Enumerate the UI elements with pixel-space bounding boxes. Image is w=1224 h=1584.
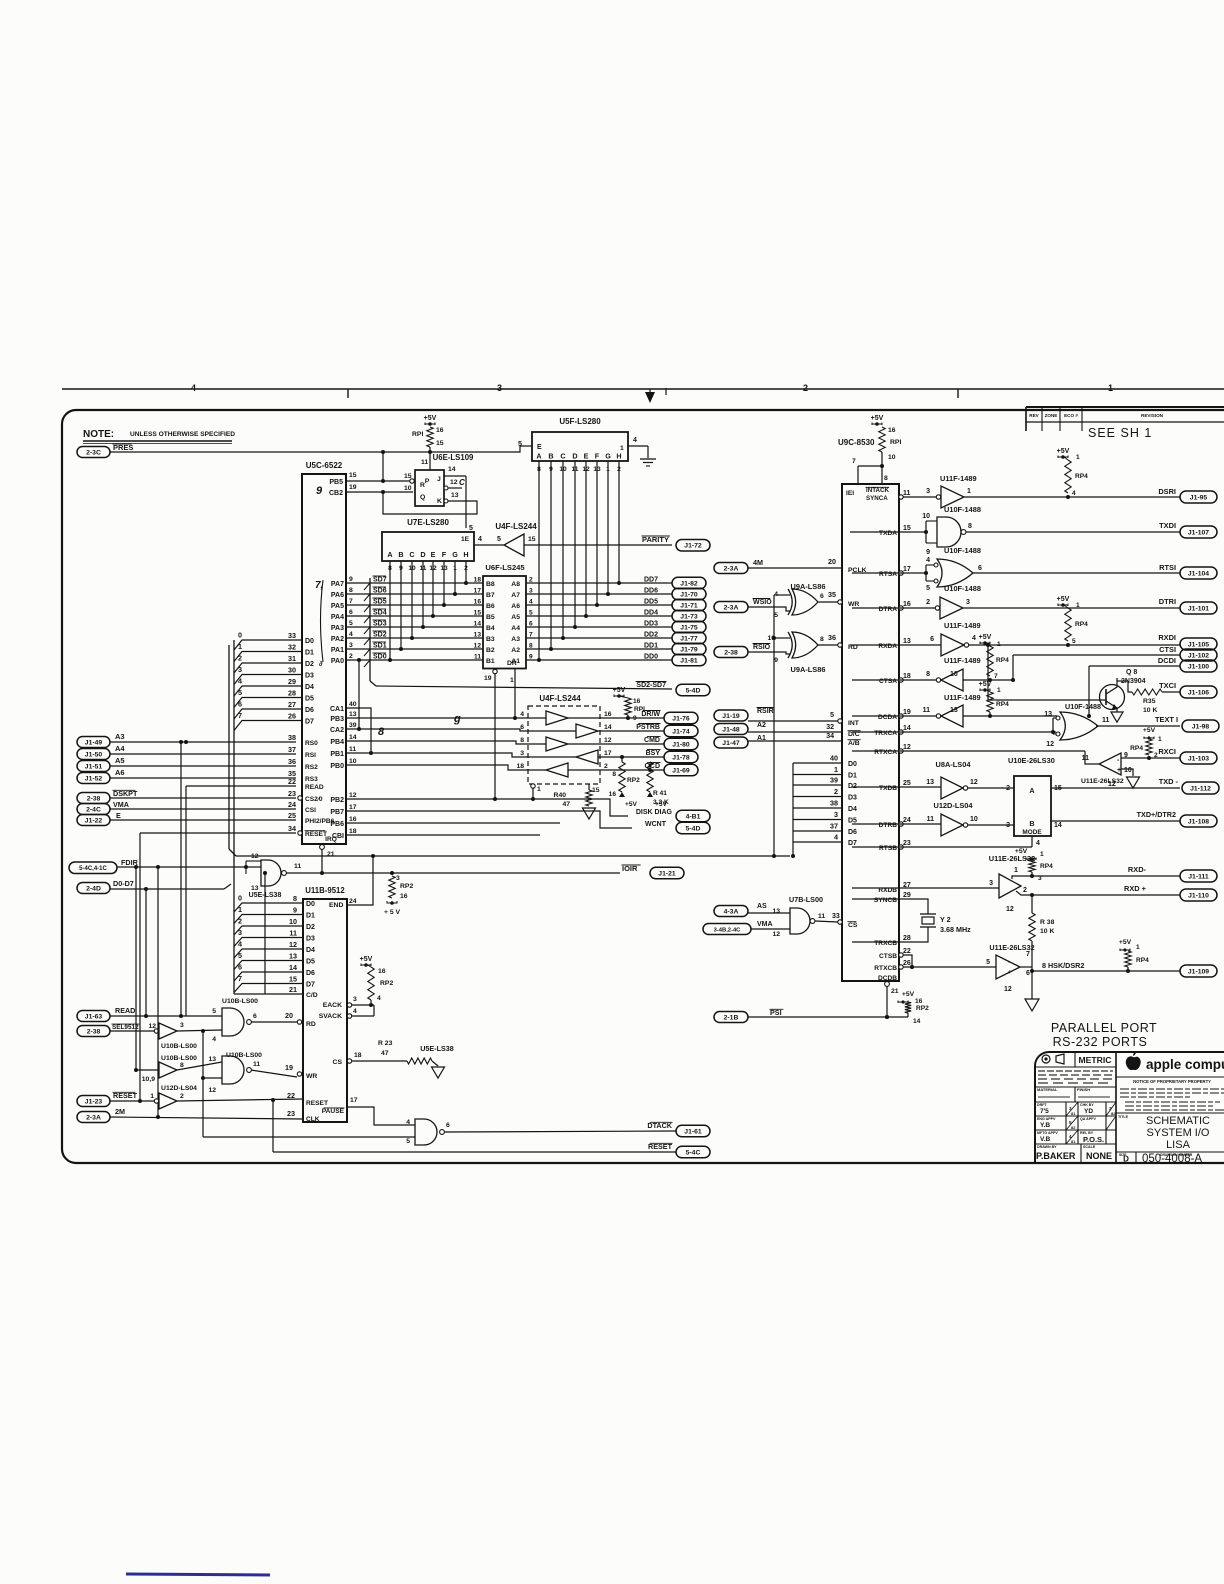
svg-text:0: 0 [238,894,242,903]
wire E [110,819,296,821]
svg-text:1: 1 [238,642,242,651]
svg-text:15: 15 [903,525,911,532]
svg-text:CHK BY: CHK BY [1080,1103,1094,1107]
ic U4F-LS244 buffer block [528,706,600,784]
svg-text:16: 16 [915,998,923,1005]
wire RTSI [973,572,1180,574]
connector J1-78 [664,751,698,763]
connector 2-38 DSKPT [77,793,110,804]
svg-text:ECO #: ECO # [1064,413,1078,418]
svg-text:D0: D0 [306,901,315,908]
svg-text:J1-70: J1-70 [680,591,698,598]
wire A3 [110,741,296,743]
wire DD3 [526,626,672,628]
svg-text:Y.B: Y.B [1040,1122,1050,1129]
wire D0 stub (8530) [793,762,842,764]
svg-text:8: 8 [349,587,353,594]
svg-text:U11E-26LS32: U11E-26LS32 [1081,778,1124,785]
gate U5E-LS38 (FDIR) [246,866,261,868]
connector 5-4D (SD2-SD7) [676,684,710,696]
svg-text:3: 3 [989,880,993,887]
svg-text:8: 8 [293,894,297,903]
svg-text:16: 16 [436,427,444,434]
svg-text:D3: D3 [306,935,315,942]
svg-text:2-38: 2-38 [87,795,101,802]
wire RXCI [1121,757,1180,759]
svg-text:PAUSE: PAUSE [322,1108,345,1115]
svg-text:J1-52: J1-52 [85,775,103,782]
svg-text:D7: D7 [848,840,857,847]
svg-text:CS: CS [333,1059,343,1066]
wire READ pin22 [186,785,296,787]
connector J1-49 [77,737,110,748]
svg-text:RP4: RP4 [1130,745,1143,752]
svg-text:R 23: R 23 [378,1040,393,1047]
title block grid [1115,1052,1117,1163]
ground (RXCI) [1127,777,1140,788]
svg-text:D: D [572,452,577,461]
svg-text:15: 15 [436,440,444,447]
svg-text:A6: A6 [511,603,520,610]
svg-text:6: 6 [238,963,242,972]
svg-text:15: 15 [289,975,297,984]
data bus vertical (8530) [792,763,794,856]
svg-text:0: 0 [238,631,242,640]
wire inv2 in [136,1069,159,1071]
wire CTSA in [963,679,1013,681]
svg-text:2-3A: 2-3A [86,1114,101,1121]
gate U9A-LS86 (RD) [792,632,818,658]
svg-text:13: 13 [208,1056,216,1063]
svg-text:TEXT I: TEXT I [1155,715,1178,724]
svg-text:J1-19: J1-19 [722,713,740,720]
svg-text:8: 8 [820,636,824,643]
svg-text:39: 39 [830,776,838,785]
connector J1-105 [1180,638,1217,650]
data bus vertical [228,645,230,849]
svg-text:17: 17 [349,804,357,811]
svg-text:TITLE: TITLE [1118,1115,1129,1119]
svg-text:RXDI: RXDI [1158,633,1176,642]
svg-text:5: 5 [1072,638,1076,645]
resistor RP2 pullup (BSY) [619,762,625,792]
svg-text:6: 6 [349,609,353,616]
wire TEXT I [1096,725,1180,727]
wire FDIR [117,866,246,868]
svg-text:5: 5 [349,620,353,627]
svg-text:6: 6 [520,724,524,731]
ground (Q8) [1111,712,1123,722]
svg-text:DD5: DD5 [644,599,658,606]
svg-text:U7B-LS00: U7B-LS00 [789,895,823,904]
svg-text:29: 29 [288,677,296,686]
svg-text:U5C-6522: U5C-6522 [306,461,343,470]
connector 2-38 SEL9512 [77,1026,110,1037]
svg-text:TXCI: TXCI [1159,681,1176,690]
svg-text:050-4008-A: 050-4008-A [1142,1153,1202,1165]
connector J1-19 [714,710,748,721]
svg-text:4: 4 [1036,840,1040,847]
svg-text:5: 5 [212,1008,216,1015]
svg-text:4-3A: 4-3A [724,908,739,915]
svg-text:RSIO: RSIO [753,644,771,651]
connector J1-106 [1180,686,1217,698]
svg-text:U12D-LS04: U12D-LS04 [161,1085,197,1092]
svg-text:RPI: RPI [412,431,423,438]
pin WR 35 [838,600,842,604]
svg-text:B1: B1 [486,658,495,665]
svg-text:RSI: RSI [305,752,316,759]
connector J1-79 [672,643,706,655]
svg-text:4: 4 [353,1008,357,1015]
svg-text:6: 6 [978,565,982,572]
buffer 2 (PSTRB) [528,730,576,732]
svg-text:8: 8 [884,475,888,482]
wire TXD- [1051,787,1180,789]
svg-text:D4: D4 [306,947,315,954]
vertical XOR feed [773,595,775,856]
wire RP1 to pin11 [429,447,431,470]
svg-text:RXCI: RXCI [1158,747,1176,756]
svg-text:4: 4 [238,940,242,949]
wire D7 stub (8530) [793,841,842,843]
svg-text:2: 2 [834,787,838,796]
wire RESET row [273,1151,676,1153]
svg-text:1: 1 [967,488,971,495]
svg-text:A/B: A/B [848,740,860,747]
svg-text:2-3A: 2-3A [724,565,739,572]
svg-text:B6: B6 [486,603,495,610]
svg-text:D5: D5 [848,817,857,824]
wire TXDB to MODE [968,787,1014,789]
svg-text:RSIR: RSIR [757,708,774,715]
wire READ [110,1015,222,1017]
connector J1-95 [1180,491,1217,503]
svg-text:DD3: DD3 [644,621,658,628]
svg-text:J1-23: J1-23 [85,1098,103,1105]
svg-text:23: 23 [288,789,296,798]
svg-text:28: 28 [288,689,296,698]
svg-text:J1-98: J1-98 [1192,723,1210,730]
wire D1 bus stub (6522) [234,652,302,662]
svg-text:13: 13 [903,638,911,645]
svg-text:RTSB: RTSB [879,845,897,852]
svg-text:ZONE: ZONE [1045,413,1058,418]
svg-text:J: J [437,476,441,483]
wire DSRI [964,496,1180,498]
svg-text:RESET: RESET [306,1100,328,1107]
pin PA3 / wire SD3 [346,626,483,628]
svg-text:1: 1 [238,905,242,914]
svg-text:PA6: PA6 [331,592,344,599]
svg-text:12: 12 [970,779,978,786]
svg-text:14: 14 [1054,822,1062,829]
connector J1-61 [676,1125,710,1137]
svg-text:DD7: DD7 [644,577,658,584]
svg-text:+5V: +5V [613,687,626,694]
wire CS / resistor R23 [352,1060,407,1062]
svg-text:U12D-LS04: U12D-LS04 [933,801,973,810]
svg-text:U5F-LS280: U5F-LS280 [559,417,601,426]
svg-text:7: 7 [852,458,856,465]
wire RXDB [852,887,999,889]
svg-text:81: 81 [1071,1139,1076,1144]
svg-text:J1-102: J1-102 [1188,652,1209,659]
svg-text:Q 8: Q 8 [1126,669,1137,676]
notice of proprietary [1116,1076,1224,1078]
svg-text:DTRA: DTRA [879,606,898,613]
svg-text:CLK: CLK [306,1116,320,1123]
svg-text:3: 3 [396,875,400,882]
svg-text:13: 13 [926,779,934,786]
svg-text:16: 16 [474,599,482,606]
svg-text:IEI: IEI [846,490,854,497]
wire IOIR [286,872,620,874]
ground (HSK) [1025,999,1039,1011]
svg-text:PA4: PA4 [331,614,344,621]
svg-text:SD2-SD7: SD2-SD7 [636,682,666,689]
pin 21 bottom [885,982,890,987]
svg-text:SVACK: SVACK [319,1013,342,1020]
svg-text:R35: R35 [1143,698,1156,705]
svg-text:4: 4 [406,1119,410,1126]
svg-text:J1-79: J1-79 [680,646,698,653]
svg-text:24: 24 [903,817,911,824]
svg-text:J1-77: J1-77 [680,635,698,642]
svg-text:C: C [560,452,565,461]
vertical RESET net 6522 [139,833,141,1101]
svg-text:J1-72: J1-72 [684,543,702,550]
connector J1-76 [664,712,698,724]
ic U9C-8530 [842,484,899,981]
svg-text:H: H [463,550,468,559]
connector 5-4D (WCNT) [676,822,710,834]
connector J1-77 [672,632,706,644]
svg-text:17: 17 [350,1097,358,1104]
svg-text:5: 5 [238,688,242,697]
svg-text:C/D: C/D [306,992,318,999]
connector J1-111 [1180,870,1217,882]
revision table [1026,406,1224,408]
svg-text:2-1B: 2-1B [724,1014,739,1021]
svg-text:33: 33 [288,631,296,640]
svg-text:2-3C: 2-3C [86,449,101,456]
svg-text:3: 3 [238,665,242,674]
svg-text:BSY: BSY [646,750,661,757]
svg-text:8 HSK/DSR2: 8 HSK/DSR2 [1042,961,1084,970]
svg-text:PB0: PB0 [330,763,344,770]
apple computer logo [1126,1056,1141,1070]
wire D2 bus stub (9512) [234,926,303,935]
buffer 3 (CMD) [528,743,546,745]
svg-text:+: + [1008,970,1012,976]
svg-text:D: D [420,550,425,559]
svg-text:TXDB: TXDB [879,785,897,792]
svg-text:12: 12 [289,940,297,949]
svg-text:+5V: +5V [1119,939,1132,946]
svg-text:37: 37 [288,745,296,754]
wire D3 bus stub (6522) [234,675,302,685]
svg-text:10: 10 [404,485,412,492]
svg-text:A2: A2 [757,722,766,729]
svg-text:9: 9 [774,657,778,664]
svg-text:3: 3 [966,599,970,606]
wire PB1 to U4F pin3 [346,753,528,757]
svg-text:36: 36 [828,633,836,642]
wire WR [251,1070,297,1077]
wire PB6 [346,822,560,824]
vertical left v158 [157,867,159,1117]
wire 2M [110,1117,303,1119]
buffer 1 (DR/W) [528,717,546,719]
svg-text:U8A-LS04: U8A-LS04 [936,760,972,769]
svg-text:B3: B3 [486,636,495,643]
svg-text:C: C [409,550,414,559]
projection symbols [1042,1055,1050,1063]
svg-text:A3: A3 [115,732,125,741]
wire OCD [600,769,664,771]
svg-text:15: 15 [528,536,536,543]
svg-text:14: 14 [913,1018,921,1025]
wire PB0 to U4F pin18 [346,765,528,770]
pin INT 5 [838,719,842,723]
svg-text:DCDA: DCDA [878,714,897,721]
connector J1-100 [1180,660,1217,672]
svg-text:MODE: MODE [1022,829,1042,836]
wire XOR1 out [818,601,838,603]
connector J1-51 [77,761,110,772]
svg-text:CS2⁄0: CS2⁄0 [305,796,323,803]
svg-text:6: 6 [238,700,242,709]
svg-text:6: 6 [930,636,934,643]
svg-text:4: 4 [212,1036,216,1043]
data bus trunk wire [236,855,790,857]
svg-text:PB1: PB1 [330,751,344,758]
svg-text:J1-74: J1-74 [672,728,690,735]
pin PA0 / wire SD0 [346,659,483,661]
svg-text:22: 22 [903,948,911,955]
svg-text:1: 1 [537,786,541,793]
svg-text:3: 3 [349,642,353,649]
connector J1-112 [1182,782,1219,794]
svg-text:D5: D5 [305,695,314,702]
svg-text:39: 39 [349,722,357,729]
wire PSTRB [600,730,664,732]
svg-text:DISK DIAG: DISK DIAG [636,809,673,816]
svg-text:3: 3 [353,996,357,1003]
svg-text:RS0: RS0 [305,740,318,747]
svg-text:U10F-1488: U10F-1488 [1065,702,1101,711]
pin RD 36 [838,643,842,647]
svg-text:G: G [605,452,611,461]
connector J1-109 [1180,965,1217,977]
ic U11B-9512 [303,899,347,1122]
svg-text:RTSI: RTSI [1159,563,1176,572]
connector 2-3C [77,447,110,458]
svg-text:WR: WR [306,1073,317,1080]
svg-text:11: 11 [421,459,428,466]
svg-text:NOTICE OF PROPRIETARY PROPERTY: NOTICE OF PROPRIETARY PROPERTY [1133,1079,1211,1084]
svg-text:apple computer: apple computer [1146,1057,1224,1072]
svg-text:+ 5 V: + 5 V [384,909,401,916]
svg-text:+5V: +5V [1057,596,1070,603]
svg-text:Q: Q [420,494,425,501]
svg-text:29: 29 [903,892,911,899]
svg-text:U11F-1489: U11F-1489 [944,693,981,702]
svg-text:13: 13 [451,492,459,499]
svg-text:5: 5 [926,585,930,592]
svg-text:J1-109: J1-109 [1188,968,1209,975]
svg-text:4: 4 [520,711,524,718]
wire SD0 to CA2 [358,660,360,729]
svg-text:3: 3 [834,810,838,819]
svg-text:F: F [595,452,600,461]
svg-text:5-4D: 5-4D [686,687,701,694]
pin PA4 / wire SD4 [346,615,483,617]
svg-text:3-4B,2-4C: 3-4B,2-4C [714,927,742,933]
pin WR 19 [297,1072,301,1076]
svg-text:J1-106: J1-106 [1188,689,1209,696]
svg-text:SD2: SD2 [373,632,387,639]
svg-text:D2: D2 [848,783,857,790]
svg-text:U11B-9512: U11B-9512 [305,886,345,895]
svg-text:5: 5 [986,959,990,966]
wire CMD [600,743,664,745]
svg-text:10: 10 [922,513,930,520]
svg-text:+5V: +5V [1057,448,1070,455]
connector J1-81 [672,654,706,666]
svg-text:DSRI: DSRI [1158,487,1176,496]
svg-text:4: 4 [926,557,930,564]
svg-text:1: 1 [1158,736,1162,743]
pin PA7 / wire SD7 [346,582,483,584]
wire END [347,856,373,905]
connector J1-104 [1180,567,1217,579]
svg-text:J1-63: J1-63 [85,1013,103,1020]
svg-text:10: 10 [1124,767,1132,774]
svg-text:47: 47 [562,801,570,808]
svg-text:27: 27 [288,700,296,709]
connector 4-B1 [676,810,710,822]
title SCHEMATIC SYSTEM I/O LISA [1116,1112,1224,1114]
svg-text:18: 18 [474,577,482,584]
svg-text:J1-80: J1-80 [672,741,690,748]
svg-text:J1-73: J1-73 [680,613,698,620]
svg-text:1: 1 [1076,602,1080,609]
svg-text:+5V: +5V [655,801,668,808]
connector J1-70 [672,588,706,600]
svg-text:U10B-LS00: U10B-LS00 [161,1055,197,1062]
wire CTSI [1012,655,1014,680]
connector 2-3A 2M [77,1112,110,1123]
wire VMA (B) [751,928,790,930]
svg-text:D2: D2 [306,924,315,931]
svg-text:3: 3 [926,488,930,495]
svg-text:5-4D: 5-4D [686,825,701,832]
svg-text:CA2: CA2 [330,727,344,734]
wire C/D to 9512 [234,993,303,995]
connector J1-107 [1180,526,1217,538]
svg-text:B: B [398,550,403,559]
svg-text:J1-51: J1-51 [85,763,103,770]
ic U7E-LS280 [382,532,474,561]
vertical READ feed [145,889,147,1016]
svg-text:14: 14 [349,734,357,741]
svg-text:12: 12 [474,643,482,650]
svg-text:25: 25 [288,811,296,820]
pin J 14 wire to U7E enable [444,475,466,477]
svg-text:RPI: RPI [634,706,645,713]
